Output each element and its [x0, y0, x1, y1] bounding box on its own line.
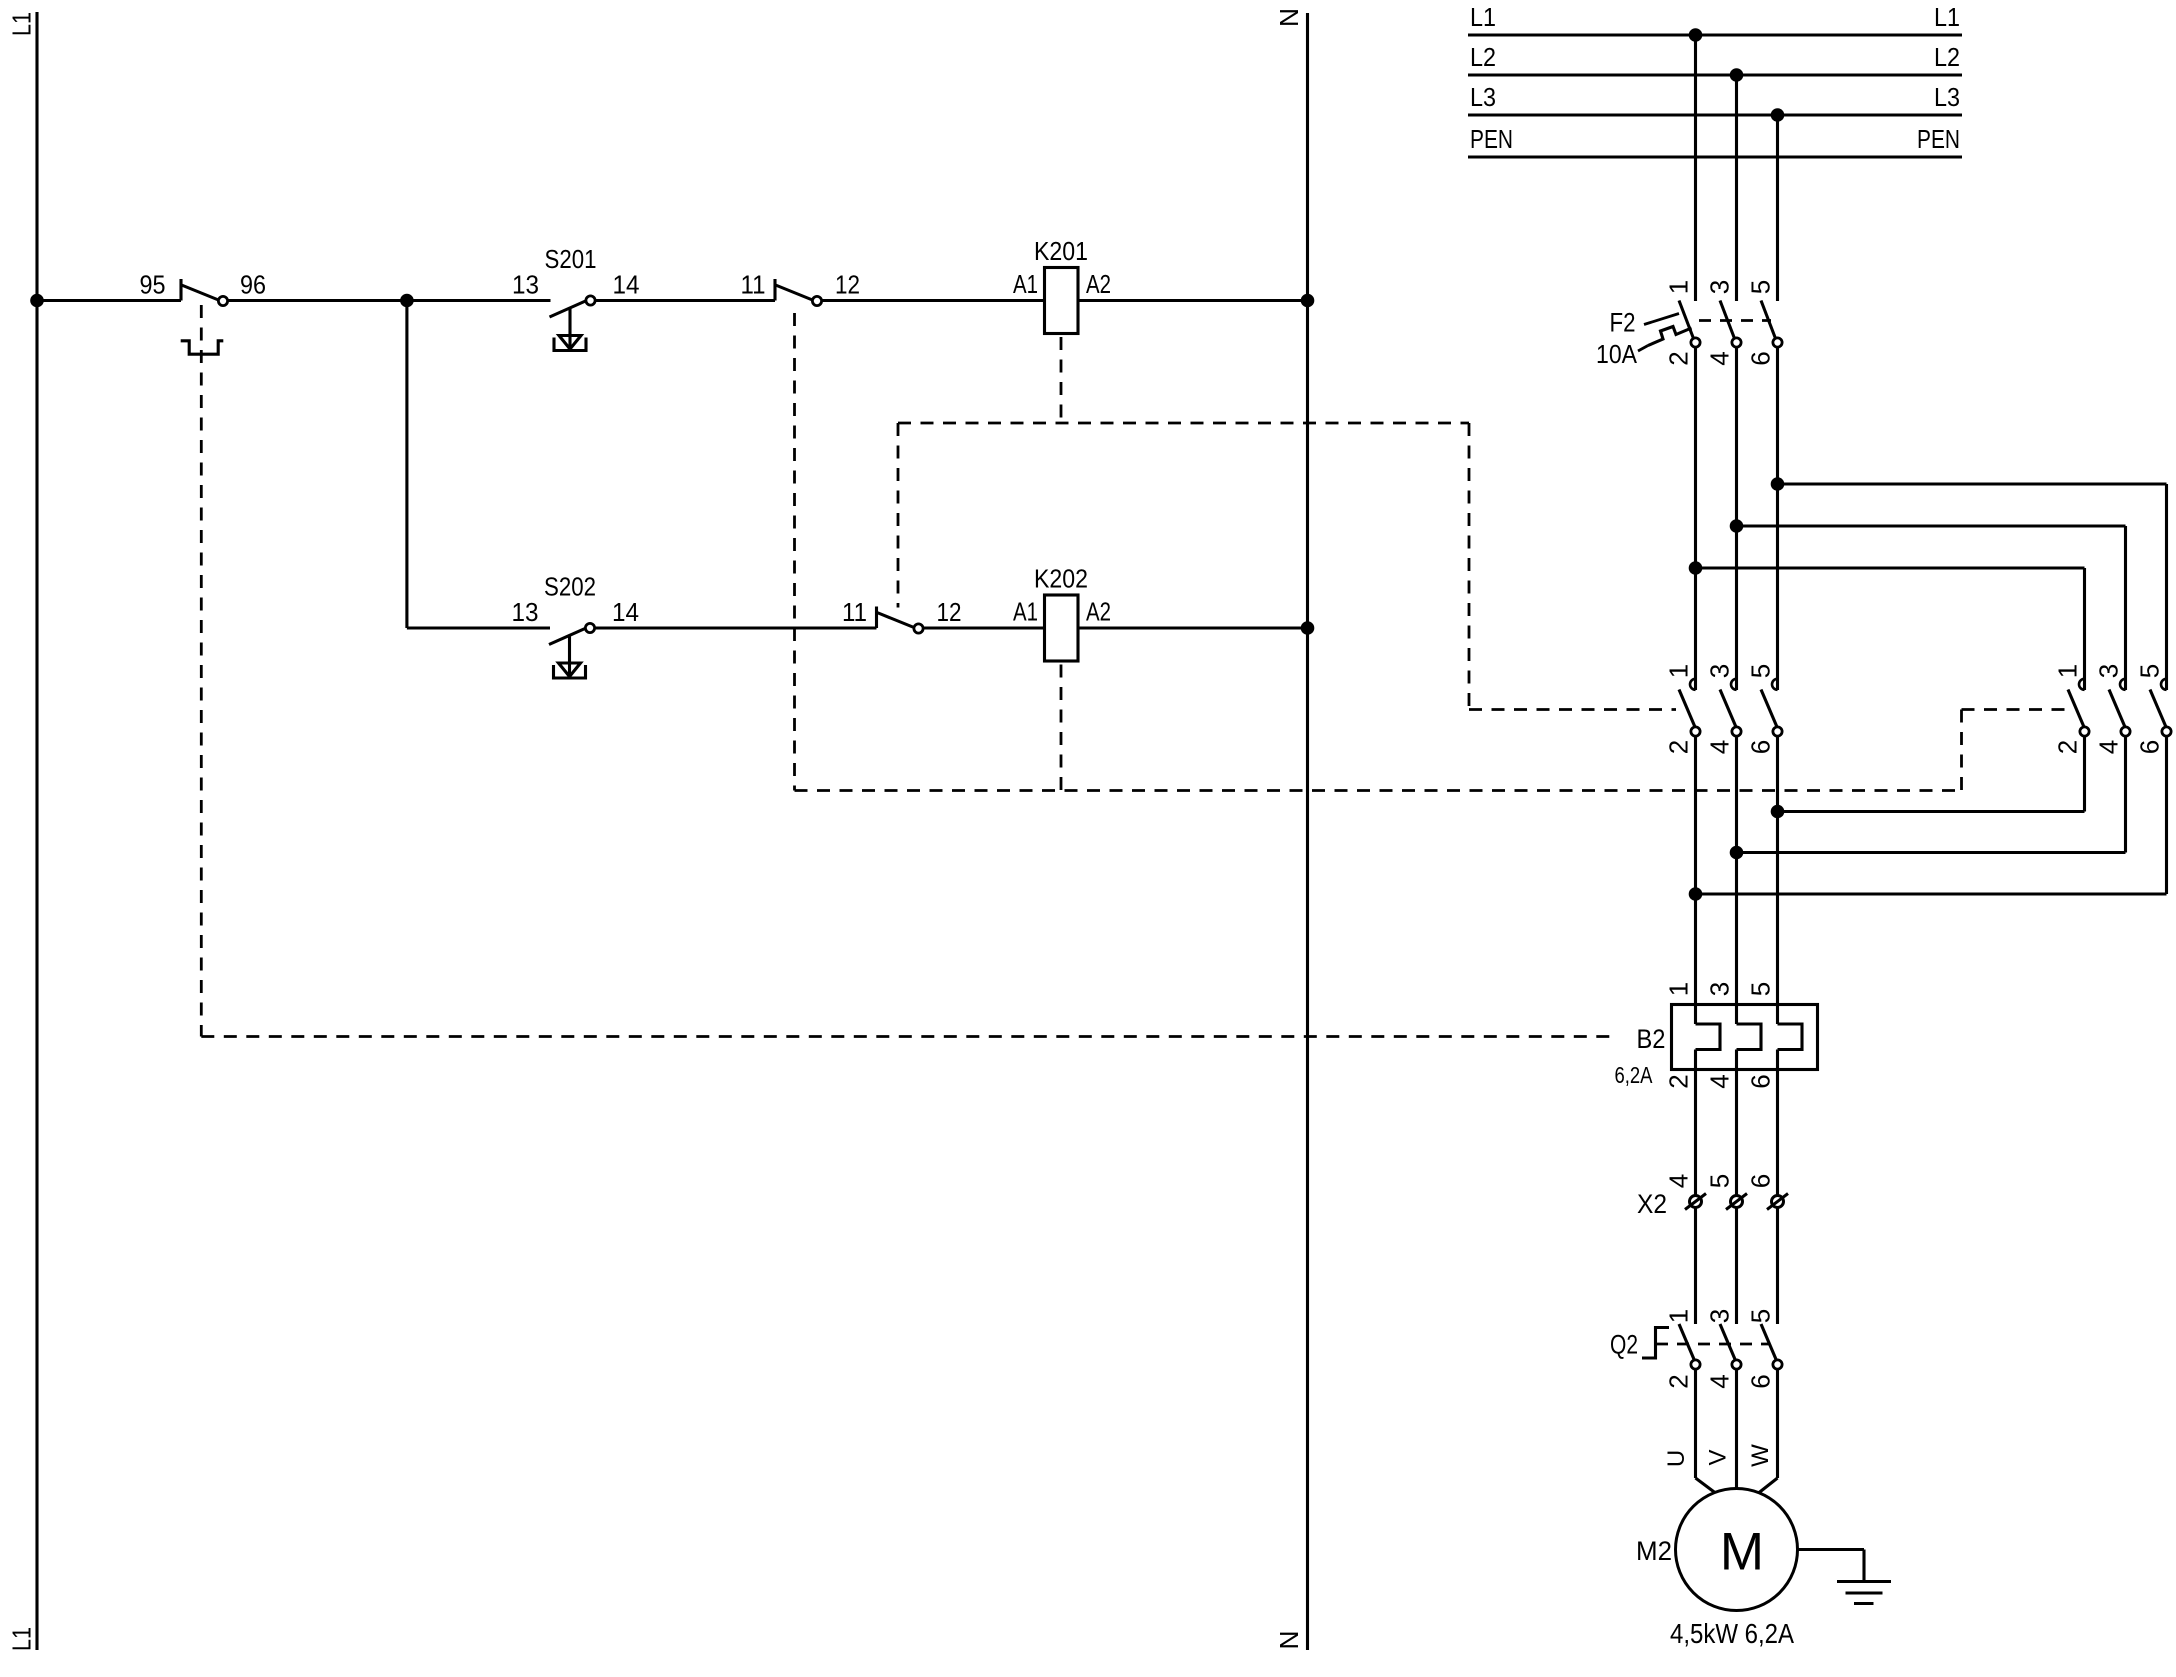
- wire row2: 12 to coil K202: [923, 626, 1045, 629]
- wire: X2.6 to Q2.5: [1776, 1208, 1779, 1325]
- circuit breaker F2 pole 5-6: [1761, 301, 1776, 339]
- svg-text:4,5kW 6,2A: 4,5kW 6,2A: [1670, 1618, 1794, 1649]
- Q2 manual actuator bracket: [1642, 1328, 1669, 1359]
- wire: power rail L3: [1468, 113, 1962, 116]
- wire: K202 pole3 bottom: [2124, 736, 2127, 853]
- svg-text:1: 1: [1663, 982, 1693, 996]
- wire: Q2.4 to motor V: [1735, 1370, 1738, 1490]
- wire: B2.4 to X2.5: [1735, 1050, 1738, 1196]
- svg-text:S201: S201: [545, 244, 597, 274]
- wire: X2.4 to Q2.1: [1694, 1208, 1697, 1325]
- svg-text:K201: K201: [1034, 236, 1088, 266]
- switch S202 (NO maintained pushbutton): [549, 629, 585, 645]
- svg-text:13: 13: [512, 597, 539, 627]
- svg-text:4: 4: [1704, 1074, 1734, 1088]
- contact K202 11/12 (NC interlock in K201 branch): [773, 279, 776, 301]
- wire: L3 drop to F2: [1776, 115, 1779, 301]
- wire row1: junction to S201: [407, 299, 551, 302]
- wire: Q2.2 to motor U: [1694, 1370, 1697, 1479]
- F2 linkage dashes: [1699, 319, 1771, 322]
- svg-text:X2: X2: [1637, 1189, 1667, 1219]
- wire: power rail PEN: [1468, 155, 1962, 158]
- Q2 linkage dashes: [1656, 1343, 1770, 1346]
- linkage: B2 trip dashed horizontal to overload B2: [201, 1035, 1612, 1038]
- svg-text:2: 2: [1663, 351, 1693, 365]
- linkage: B2 trip dashed vertical from 95/96 contact: [200, 305, 203, 1037]
- svg-text:W: W: [1747, 1444, 1774, 1467]
- terminal X2:5: [1731, 1196, 1743, 1208]
- svg-text:95: 95: [140, 270, 166, 300]
- contact B2 95/96 (NC overload contact): [179, 279, 182, 301]
- wire row2: coil K202 to N rail: [1078, 626, 1308, 629]
- F2 thermal release symbol: [1648, 327, 1692, 346]
- node: tap L1: [1689, 28, 1703, 42]
- svg-text:6: 6: [1745, 1174, 1775, 1188]
- svg-text:1: 1: [1663, 280, 1693, 294]
- node: junction row1 / N rail: [1301, 294, 1315, 308]
- wire: tap L3 to K202 pole 5 top: [1778, 482, 2167, 485]
- svg-text:96: 96: [240, 270, 266, 300]
- node: junction row2 / N rail: [1301, 621, 1315, 635]
- svg-text:14: 14: [613, 270, 640, 300]
- linkage K201: coil to interlock and main poles: [1060, 337, 1063, 423]
- wire: B2.2 to X2.4: [1694, 1050, 1697, 1196]
- svg-text:6: 6: [2134, 740, 2164, 754]
- svg-text:4: 4: [1704, 740, 1734, 754]
- svg-text:2: 2: [2052, 740, 2082, 754]
- svg-text:2: 2: [1663, 1374, 1693, 1388]
- svg-text:3: 3: [1704, 982, 1734, 996]
- svg-text:2: 2: [1663, 740, 1693, 754]
- contactor K201 main pole 1-2: [1690, 679, 1696, 690]
- wire: crossover K202.2 to phase W: [1778, 810, 2085, 813]
- node: tap to K202 pole 5: [1771, 477, 1785, 491]
- wire: K202 pole1 bottom: [2083, 736, 2086, 812]
- svg-text:A2: A2: [1086, 269, 1111, 299]
- svg-text:B2: B2: [1637, 1024, 1666, 1054]
- overload B2 heater pole 3-4: [1737, 1024, 1762, 1050]
- svg-text:L1: L1: [1934, 2, 1960, 32]
- svg-text:3: 3: [1704, 664, 1734, 678]
- svg-text:A1: A1: [1013, 269, 1038, 299]
- wire: left L1 vertical rail: [35, 12, 38, 1650]
- svg-text:3: 3: [1704, 1309, 1734, 1323]
- node: tap L2: [1730, 68, 1744, 82]
- overload B2 heater pole 1-2: [1696, 1024, 1721, 1050]
- svg-text:N: N: [1274, 8, 1304, 27]
- svg-text:5: 5: [1745, 982, 1775, 996]
- svg-text:12: 12: [937, 597, 962, 627]
- svg-text:PEN: PEN: [1470, 124, 1513, 154]
- coil K201: [1045, 268, 1079, 334]
- svg-text:M2: M2: [1636, 1536, 1672, 1566]
- switch Q2 pole 1-2: [1679, 1324, 1695, 1361]
- svg-text:5: 5: [2134, 664, 2164, 678]
- wire row1: S201 to contact 11: [596, 299, 775, 302]
- svg-text:5: 5: [1745, 1309, 1775, 1323]
- svg-text:S202: S202: [544, 572, 596, 602]
- node: tap L3: [1771, 108, 1785, 122]
- svg-text:L1: L1: [6, 1627, 36, 1651]
- svg-text:L2: L2: [1934, 42, 1960, 72]
- wire: N vertical rail: [1306, 13, 1309, 1650]
- svg-text:10A: 10A: [1596, 339, 1638, 369]
- ground symbol: [1837, 1580, 1891, 1583]
- contactor K202 main pole 1-2: [2079, 679, 2085, 690]
- svg-text:1: 1: [1663, 1309, 1693, 1323]
- wire: L2 drop to F2: [1735, 75, 1738, 301]
- contactor K201 main pole 5-6: [1772, 679, 1778, 690]
- wire: tap L2 to K202 pole 3 top: [1737, 524, 2126, 527]
- wire: branch from row1 junction down to row2: [405, 301, 408, 629]
- svg-text:5: 5: [1704, 1174, 1734, 1188]
- overload B2 heater pole 5-6: [1778, 1024, 1803, 1050]
- svg-text:U: U: [1663, 1450, 1690, 1467]
- wire row2: S202 to contact 11: [595, 626, 876, 629]
- wire row1: 96 to junction: [228, 299, 407, 302]
- svg-text:L3: L3: [1470, 82, 1496, 112]
- node: crossover V: [1730, 846, 1744, 860]
- B2 trip indicator symbol at 95/96: [181, 341, 224, 354]
- node: junction row1 / S202 branch: [400, 294, 414, 308]
- contactor K201 main pole 3-4: [1731, 679, 1736, 690]
- coil K202: [1045, 595, 1079, 661]
- node: crossover U: [1689, 887, 1703, 901]
- svg-text:6: 6: [1745, 740, 1775, 754]
- svg-text:5: 5: [1745, 664, 1775, 678]
- wire: K201 pole5 bottom down: [1776, 736, 1779, 1024]
- contact K201 11/12 (NC interlock in K202 branch): [875, 607, 878, 629]
- svg-text:13: 13: [512, 270, 539, 300]
- svg-text:1: 1: [1663, 664, 1693, 678]
- svg-text:14: 14: [612, 597, 639, 627]
- wire row2: branch corner to S202: [407, 626, 550, 629]
- svg-text:N: N: [1274, 1631, 1304, 1650]
- node: junction L1 rail / control row 1: [30, 294, 44, 308]
- svg-text:A1: A1: [1013, 597, 1038, 627]
- linkage K202: coil to interlock and main poles: [1060, 665, 1063, 791]
- switch Q2 pole 3-4: [1720, 1324, 1736, 1361]
- wire: X2.5 to Q2.3: [1735, 1208, 1738, 1325]
- wire: crossover K202.6 to phase U: [1696, 892, 2167, 895]
- svg-text:L1: L1: [1470, 2, 1496, 32]
- wire: L1 drop to F2: [1694, 35, 1697, 301]
- wire: F2.6 down to K201 pole 5: [1776, 347, 1779, 690]
- svg-text:11: 11: [741, 270, 766, 300]
- svg-text:6: 6: [1745, 1074, 1775, 1088]
- contactor K202 main pole 3-4: [2120, 679, 2126, 690]
- svg-text:3: 3: [1704, 280, 1734, 294]
- svg-text:11: 11: [842, 597, 867, 627]
- wire: power rail L1: [1468, 33, 1962, 36]
- svg-text:5: 5: [1745, 280, 1775, 294]
- terminal X2:4: [1690, 1196, 1702, 1208]
- wire row1: L1 rail to contact 95: [37, 299, 181, 302]
- svg-text:2: 2: [1663, 1074, 1693, 1088]
- overload relay B2 box: [1672, 1005, 1818, 1070]
- svg-text:4: 4: [1704, 351, 1734, 365]
- switch S201 (NO maintained pushbutton): [550, 301, 586, 317]
- node: tap to K202 pole 1: [1689, 561, 1703, 575]
- switch Q2 pole 5-6: [1761, 1324, 1777, 1361]
- svg-text:V: V: [1705, 1449, 1732, 1465]
- wire row1: coil K201 to N rail: [1078, 299, 1308, 302]
- wire: K201 pole3 bottom down: [1735, 736, 1738, 1024]
- wire: B2.6 to X2.6: [1776, 1050, 1779, 1196]
- svg-text:6,2A: 6,2A: [1615, 1062, 1654, 1088]
- svg-text:PEN: PEN: [1917, 124, 1960, 154]
- svg-text:4: 4: [1704, 1374, 1734, 1388]
- circuit breaker F2 pole 3-4: [1720, 301, 1735, 339]
- wire: power rail L2: [1468, 73, 1962, 76]
- wire: F2.4 down to K201 pole 3: [1735, 347, 1738, 690]
- wire: crossover K202.4 to phase V: [1737, 851, 2126, 854]
- svg-text:4: 4: [1663, 1174, 1693, 1188]
- svg-text:3: 3: [2093, 664, 2123, 678]
- terminal X2:6: [1772, 1196, 1784, 1208]
- wire: K202 pole5 bottom: [2165, 736, 2168, 894]
- wire: motor to earth: [1797, 1548, 1864, 1551]
- svg-text:L3: L3: [1934, 82, 1960, 112]
- svg-text:M: M: [1720, 1523, 1764, 1582]
- svg-text:Q2: Q2: [1610, 1330, 1638, 1360]
- svg-text:L1: L1: [6, 12, 36, 36]
- contactor K202 main pole 5-6: [2161, 679, 2167, 690]
- svg-text:L2: L2: [1470, 42, 1496, 72]
- svg-text:6: 6: [1745, 1374, 1775, 1388]
- svg-text:F2: F2: [1610, 308, 1636, 338]
- svg-text:6: 6: [1745, 351, 1775, 365]
- svg-text:A2: A2: [1086, 597, 1111, 627]
- node: crossover W: [1771, 805, 1785, 819]
- wire: tap L1 to K202 pole 1 top: [1696, 566, 2085, 569]
- svg-text:K202: K202: [1034, 564, 1088, 594]
- wire row1: 12 to coil K201: [822, 299, 1045, 302]
- svg-text:12: 12: [835, 270, 860, 300]
- circuit breaker F2 pole 1-2: [1679, 301, 1694, 339]
- wire: Q2.6 to motor W: [1776, 1370, 1779, 1479]
- svg-text:4: 4: [2093, 740, 2123, 754]
- motor M2 circle: [1676, 1489, 1798, 1611]
- wire: F2.2 down to K201 pole 1: [1694, 347, 1697, 690]
- node: tap to K202 pole 3: [1730, 519, 1744, 533]
- svg-text:1: 1: [2052, 664, 2082, 678]
- wire: K201 pole1 bottom down: [1694, 736, 1697, 1024]
